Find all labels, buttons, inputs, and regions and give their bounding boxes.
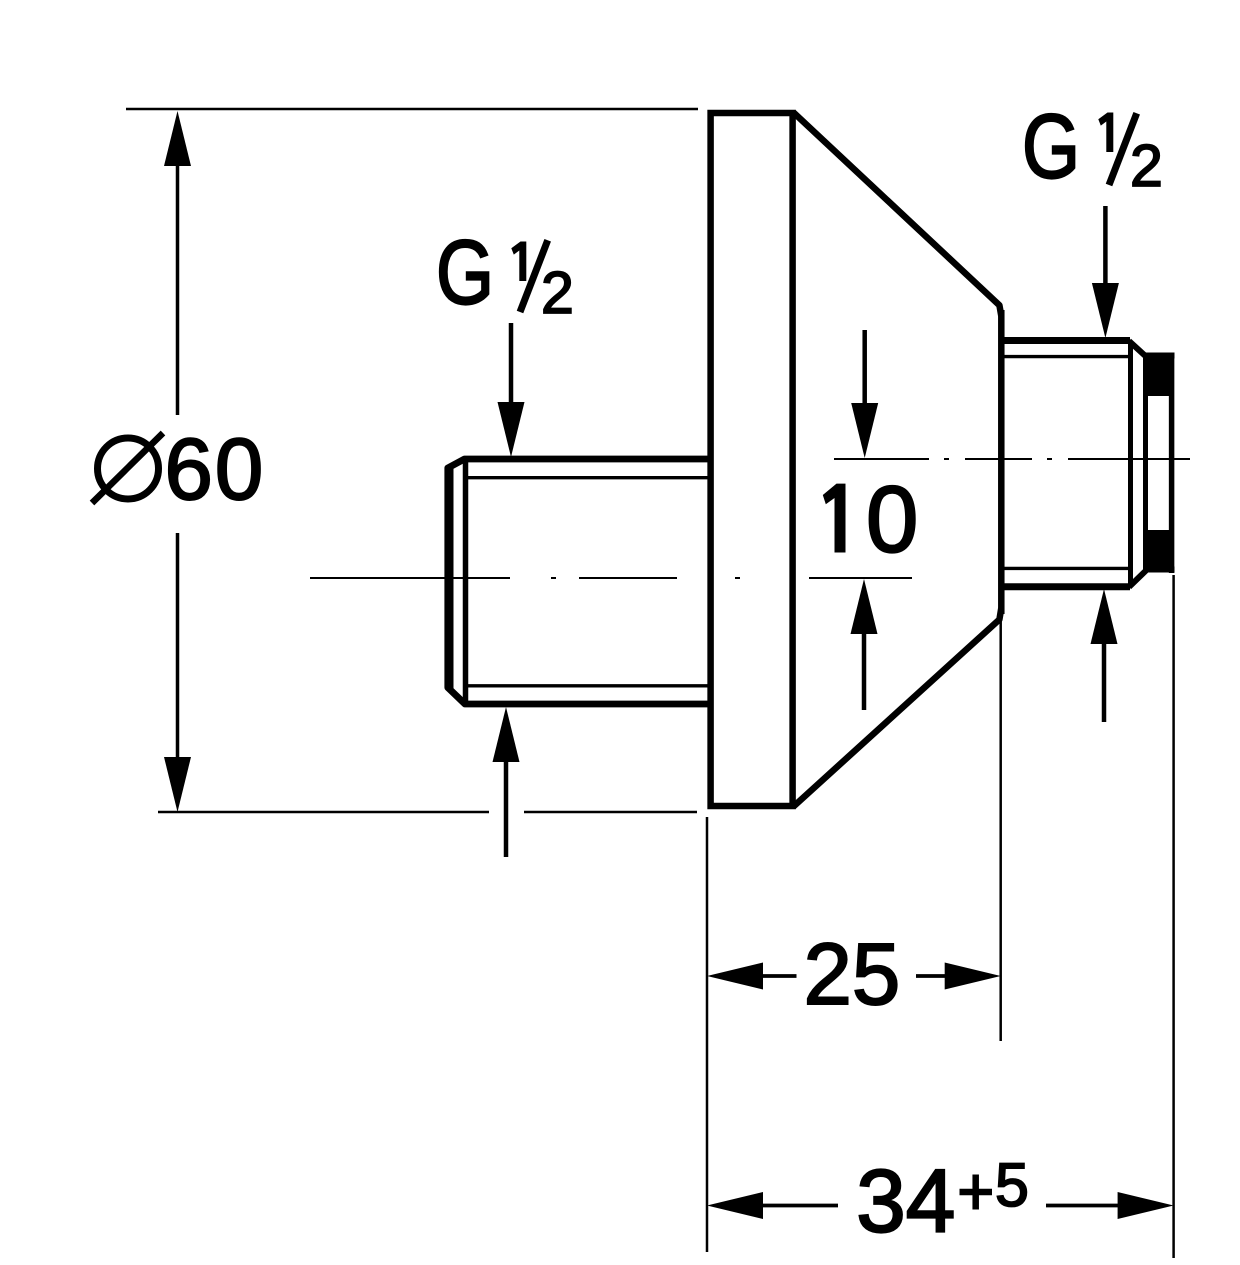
cone body top edge [794, 113, 1002, 317]
collar left line [1143, 353, 1148, 572]
right spigot chamfer top [1129, 341, 1146, 357]
label G1/2 right : G [1022, 95, 1080, 197]
svg-text:2: 2 [541, 260, 574, 326]
right spigot end line [1128, 343, 1133, 585]
svg-text:34: 34 [856, 1151, 955, 1251]
svg-text:G: G [436, 221, 494, 323]
right spigot crest bottom [1001, 583, 1130, 590]
collar top edge [1143, 353, 1175, 359]
leader arrow G1/2 right [1103, 206, 1108, 285]
svg-text:25: 25 [804, 926, 901, 1023]
extension line right (x=1174 for 34 dim) [1172, 575, 1175, 1258]
label G1/2 left : fraction 1 [511, 242, 526, 282]
cone body bottom edge [794, 608, 1002, 807]
extension line left (x=707 for 25/34 dims) [706, 817, 709, 1252]
dimension 25 : left arrowhead [707, 963, 763, 990]
dimension 34+5 : right arrowhead [1118, 1192, 1174, 1219]
seal ring section fill bottom [1143, 530, 1172, 568]
left threaded spigot G1/2 outline [448, 459, 710, 704]
svg-text:5: 5 [995, 1151, 1029, 1219]
extension line bottom right segment [524, 811, 697, 814]
right spigot thread root line top [1002, 355, 1128, 358]
right spigot thread root line bottom [1002, 567, 1128, 570]
label G1/2 right : fraction slash [1109, 113, 1137, 185]
collar right edge [1169, 353, 1175, 573]
opposing arrow below right spigot [1102, 643, 1107, 722]
extension line top (flange top, for dia-60) [126, 108, 698, 111]
left spigot thread root line top [467, 476, 708, 479]
left spigot chamfer line [463, 460, 469, 703]
left spigot end face overlay [449, 466, 454, 690]
svg-text:2: 2 [1130, 133, 1163, 199]
label G1/2 right : fraction 1 [1098, 113, 1113, 153]
right threaded spigot G1/2 crest top [1001, 337, 1130, 344]
flange (wall plate) [711, 113, 793, 806]
dimension 34+5 : line [762, 1204, 838, 1208]
dimension 25 : line [762, 974, 797, 978]
dimension 10 : upper arrow [862, 330, 867, 405]
svg-text:60: 60 [165, 421, 266, 518]
dimension line dia-60 vertical [176, 160, 180, 415]
right spigot chamfer bottom [1129, 571, 1146, 588]
svg-text:G: G [1022, 95, 1080, 197]
dimension 34+5 : plus sign [960, 1189, 993, 1196]
arrowhead dia-60 top [164, 111, 191, 166]
diameter symbol of dia-60 label [92, 433, 163, 503]
extension line bottom (flange bottom, for dia-60) [158, 811, 489, 814]
collar bottom edge [1143, 567, 1175, 573]
opposing arrow below left spigot [504, 758, 509, 857]
seal ring section fill top [1143, 357, 1172, 396]
dimension 34+5 : left arrowhead [707, 1192, 763, 1219]
dimension 25 : right arrowhead [945, 963, 1001, 990]
arrowhead dia-60 bottom [164, 757, 191, 812]
extension line middle (x=1001 for 25 dim) [999, 613, 1002, 1041]
label G1/2 left : fraction slash [520, 240, 548, 312]
dimension 10 : text [823, 484, 846, 553]
svg-text:0: 0 [866, 467, 918, 572]
leader arrow G1/2 left [509, 323, 514, 404]
centerline right pipe [834, 458, 1190, 460]
label G1/2 left : G [436, 221, 494, 323]
centerline left pipe [310, 577, 912, 579]
cone right face [998, 310, 1005, 614]
dimension 10 : lower arrow [862, 632, 867, 710]
left spigot thread root line bottom [467, 684, 708, 687]
